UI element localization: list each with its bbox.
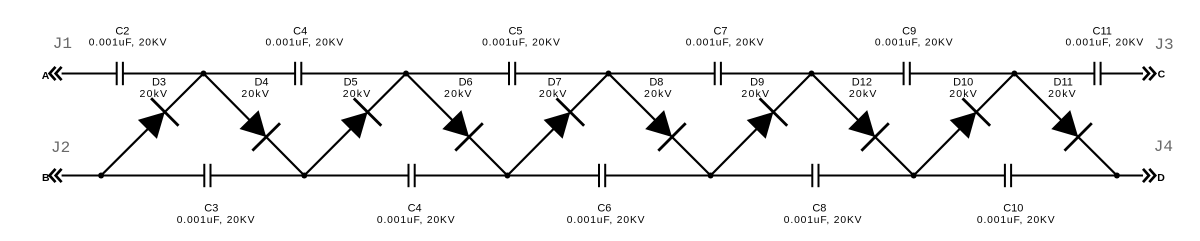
svg-text:20kV: 20kV <box>539 88 568 100</box>
svg-text:C10: C10 <box>1003 203 1023 215</box>
diode D10 <box>950 98 990 138</box>
svg-text:C4: C4 <box>293 25 307 37</box>
svg-text:D10: D10 <box>953 76 973 88</box>
diode D11 <box>1051 110 1092 151</box>
wire: diode D7 branch from (507,176) to (608,74) <box>507 74 608 176</box>
svg-text:20kV: 20kV <box>1048 88 1077 100</box>
junction dot: top node 4 <box>809 71 815 77</box>
svg-text:D6: D6 <box>459 76 473 88</box>
svg-text:C: C <box>1158 69 1166 81</box>
svg-text:J2: J2 <box>51 139 70 157</box>
svg-text:J3: J3 <box>1154 36 1173 54</box>
svg-text:C9: C9 <box>902 25 916 37</box>
svg-text:C8: C8 <box>812 203 826 215</box>
port B <box>42 169 62 184</box>
wire: diode D8 branch from (608,74) to (711,176) <box>609 74 711 176</box>
svg-text:D12: D12 <box>852 76 872 88</box>
junction dot: top node 3 <box>606 71 612 77</box>
svg-text:A: A <box>42 70 50 82</box>
junction dot: top node 1 <box>201 71 207 77</box>
diode D3 <box>138 98 179 139</box>
svg-text:D3: D3 <box>152 76 166 88</box>
svg-text:20kV: 20kV <box>241 88 270 100</box>
wire: diode D6 branch from (406,74) to (507,176) <box>406 74 507 176</box>
diode D12 <box>848 110 889 151</box>
svg-text:0.001uF, 20KV: 0.001uF, 20KV <box>265 37 344 48</box>
svg-text:C3: C3 <box>204 203 218 215</box>
svg-text:0.001uF, 20KV: 0.001uF, 20KV <box>377 215 456 226</box>
svg-text:D4: D4 <box>254 76 268 88</box>
wire bottom rail: C6 to C8 <box>605 175 812 177</box>
svg-text:0.001uF, 20KV: 0.001uF, 20KV <box>177 215 256 226</box>
junction dot: top node 2 <box>403 71 409 77</box>
svg-text:J4: J4 <box>1154 138 1173 156</box>
wire bottom rail: C10 to D <box>1011 175 1143 177</box>
wire: diode D11 branch from (1014,74) to (1117,176) <box>1014 74 1117 176</box>
wire top rail: C9 to C11 <box>910 73 1095 75</box>
junction dot: bottom node 3 <box>504 173 510 179</box>
wire: diode D12 branch from (812,74) to (914,176) <box>812 74 914 176</box>
diode D9 <box>747 98 788 138</box>
capacitor C4 <box>408 164 416 187</box>
svg-text:20kV: 20kV <box>741 88 770 100</box>
svg-text:0.001uF, 20KV: 0.001uF, 20KV <box>977 215 1056 226</box>
svg-text:20kV: 20kV <box>444 88 473 100</box>
wire bottom rail: C4 to C6 <box>415 175 599 177</box>
wire: diode D10 branch from (914,176) to (1014,74) <box>914 74 1015 176</box>
junction dot: bottom node 4 <box>708 173 714 179</box>
wire top rail: C7 to C9 <box>721 73 904 75</box>
port D <box>1143 169 1165 184</box>
wire top rail: C4 to C5 <box>301 73 509 75</box>
svg-text:J1: J1 <box>53 35 72 53</box>
junction dot: top node 5 <box>1011 71 1017 77</box>
svg-text:C11: C11 <box>1093 25 1112 37</box>
svg-text:20kV: 20kV <box>949 88 978 100</box>
svg-text:B: B <box>42 172 50 184</box>
diode D8 <box>645 110 686 151</box>
wire: diode D4 branch from (204,74) to (304,176) <box>204 74 305 176</box>
svg-text:20kV: 20kV <box>849 88 878 100</box>
wire: diode D9 branch from (711,176) to (812,74) <box>711 74 812 176</box>
svg-text:20kV: 20kV <box>343 88 372 100</box>
capacitor C10 <box>1004 164 1012 187</box>
wire top rail: A to C2 <box>62 73 117 75</box>
svg-text:D8: D8 <box>649 76 663 88</box>
junction dot: bottom node 1 <box>98 173 104 179</box>
svg-text:D5: D5 <box>344 76 358 88</box>
diode D7 <box>544 98 585 138</box>
svg-text:20kV: 20kV <box>644 88 673 100</box>
wire: diode D5 branch from (304,176) to (406,74) <box>304 74 406 176</box>
capacitor C3 <box>203 164 211 187</box>
diode D4 <box>240 110 281 150</box>
diode D6 <box>442 110 483 150</box>
port A <box>42 67 62 82</box>
svg-text:C5: C5 <box>508 25 522 37</box>
svg-text:C6: C6 <box>597 203 611 215</box>
svg-text:D: D <box>1157 172 1165 184</box>
svg-text:0.001uF, 20KV: 0.001uF, 20KV <box>482 37 561 48</box>
svg-text:0.001uF, 20KV: 0.001uF, 20KV <box>567 215 646 226</box>
wire bottom rail: C3 to C4 <box>211 175 409 177</box>
svg-text:D11: D11 <box>1054 76 1073 88</box>
svg-text:D9: D9 <box>750 76 764 88</box>
svg-text:20kV: 20kV <box>140 88 169 100</box>
junction dot: bottom node 5 <box>911 173 917 179</box>
capacitor C11 <box>1093 62 1101 85</box>
svg-text:0.001uF, 20KV: 0.001uF, 20KV <box>1065 37 1144 48</box>
port C <box>1143 67 1166 81</box>
svg-text:0.001uF, 20KV: 0.001uF, 20KV <box>875 37 954 48</box>
wire top rail: C11 to C <box>1101 73 1143 75</box>
wire bottom rail: C8 to C10 <box>819 175 1005 177</box>
wire top rail: C5 to C7 <box>515 73 715 75</box>
svg-text:D7: D7 <box>548 76 562 88</box>
svg-text:C4: C4 <box>408 203 422 215</box>
svg-text:0.001uF, 20KV: 0.001uF, 20KV <box>89 37 168 48</box>
junction dot: bottom node 6 <box>1114 173 1120 179</box>
capacitor C6 <box>598 164 606 187</box>
wire top rail: C2 to C4 <box>123 73 295 75</box>
wire bottom rail: B to C3 <box>62 175 205 177</box>
svg-text:C2: C2 <box>115 25 129 37</box>
svg-text:0.001uF, 20KV: 0.001uF, 20KV <box>686 37 765 48</box>
capacitor C5 <box>508 62 516 85</box>
capacitor C2 <box>116 62 124 85</box>
capacitor C4 <box>294 62 302 85</box>
junction dot: bottom node 2 <box>301 173 307 179</box>
wire: diode D3 branch from (101,176) to (204,74) <box>101 74 203 176</box>
capacitor C9 <box>903 62 911 85</box>
diode D5 <box>341 98 382 138</box>
svg-text:C7: C7 <box>713 25 727 37</box>
capacitor C7 <box>714 62 722 85</box>
capacitor C8 <box>811 164 819 187</box>
svg-text:0.001uF, 20KV: 0.001uF, 20KV <box>784 215 863 226</box>
